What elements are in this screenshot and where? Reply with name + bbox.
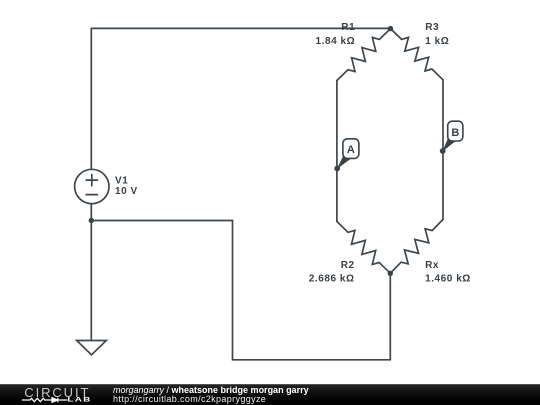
svg-text:2.686 kΩ: 2.686 kΩ [309,274,355,285]
wire middle vertical [232,221,234,360]
wire left vertical upper [90,28,92,169]
svg-text:Rx: Rx [425,260,439,271]
node tag A [337,139,359,169]
wire bottom horizontal [233,359,391,361]
svg-text:1 kΩ: 1 kΩ [425,36,449,47]
node A dot [334,166,340,172]
wire middle horizontal [91,220,232,222]
V1 plus sign [86,179,97,181]
svg-text:R1: R1 [341,22,355,33]
svg-text:1.84 kΩ: 1.84 kΩ [316,36,356,47]
svg-text:V1: V1 [115,175,128,186]
node B dot [440,148,446,154]
resistor R1 [337,29,391,81]
svg-text:A: A [347,144,355,156]
svg-text:R2: R2 [341,260,355,271]
wire bottom riser [389,273,391,360]
footer bar [0,384,540,405]
node bridge top [388,26,393,31]
footer title line [113,385,309,395]
wire left vertical lower [90,204,92,341]
CircuitLab logo squiggle [22,396,70,404]
resistor R3 [391,29,444,80]
footer url line [113,394,266,404]
V1 minus sign [86,194,97,196]
svg-text:1.460 kΩ: 1.460 kΩ [425,274,471,285]
svg-text:10 V: 10 V [115,186,138,197]
node bridge bottom [388,271,393,276]
CircuitLab logo word CIRCUIT [24,385,90,400]
voltage source V1 circle [75,169,109,203]
ground [77,341,107,355]
resistor Rx [390,219,443,273]
svg-text:R3: R3 [425,22,439,33]
svg-text:B: B [451,127,459,139]
wire bridge left vertical [336,81,338,222]
resistor R2 [337,222,390,274]
wire top horizontal [91,27,390,29]
CircuitLab logo word LAB [67,396,91,403]
wire bridge right vertical [442,80,444,220]
node junction below V1 [89,218,94,223]
node tag B [442,121,463,151]
